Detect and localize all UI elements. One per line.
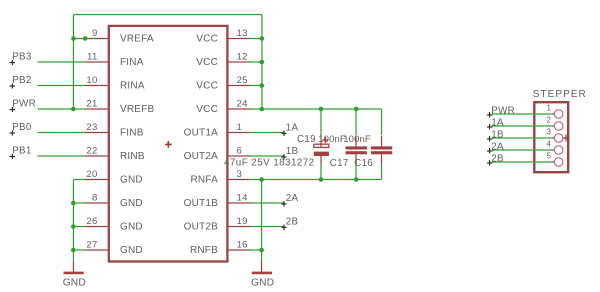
- svg-text:1A: 1A: [491, 117, 504, 128]
- svg-text:OUT1B: OUT1B: [184, 198, 218, 209]
- svg-text:VCC: VCC: [196, 81, 218, 92]
- svg-text:GND: GND: [251, 278, 274, 289]
- svg-text:5: 5: [547, 151, 552, 160]
- svg-text:21: 21: [86, 99, 97, 110]
- svg-text:4: 4: [547, 139, 552, 148]
- svg-text:VCC: VCC: [196, 34, 218, 45]
- svg-text:1: 1: [237, 122, 243, 133]
- svg-text:27: 27: [86, 240, 97, 251]
- svg-text:1B: 1B: [491, 129, 504, 140]
- svg-text:2B: 2B: [491, 153, 504, 164]
- svg-text:FINA: FINA: [120, 57, 144, 68]
- svg-text:RNFB: RNFB: [190, 245, 218, 256]
- svg-text:47uF 25V 1831272: 47uF 25V 1831272: [224, 157, 315, 168]
- svg-text:VREFA: VREFA: [120, 34, 154, 45]
- svg-text:PWR: PWR: [12, 99, 36, 110]
- svg-text:23: 23: [86, 122, 97, 133]
- svg-text:FINB: FINB: [120, 128, 144, 139]
- svg-text:PWR: PWR: [491, 105, 515, 116]
- svg-text:GND: GND: [63, 278, 86, 289]
- svg-text:26: 26: [86, 216, 97, 227]
- svg-text:2: 2: [547, 115, 552, 124]
- svg-text:9: 9: [92, 28, 98, 39]
- svg-text:100nF: 100nF: [343, 134, 371, 145]
- svg-text:2A: 2A: [286, 193, 299, 204]
- svg-text:2B: 2B: [286, 216, 299, 227]
- svg-text:1A: 1A: [286, 122, 299, 133]
- svg-text:RINA: RINA: [120, 81, 145, 92]
- svg-text:13: 13: [237, 28, 248, 39]
- svg-text:OUT2B: OUT2B: [184, 222, 218, 233]
- svg-text:GND: GND: [120, 245, 143, 256]
- svg-text:VREFB: VREFB: [120, 104, 154, 115]
- svg-text:1: 1: [547, 103, 552, 112]
- svg-text:C16: C16: [354, 158, 373, 169]
- svg-text:3: 3: [547, 127, 552, 136]
- svg-text:OUT1A: OUT1A: [184, 128, 218, 139]
- svg-text:STEPPER: STEPPER: [533, 89, 587, 100]
- svg-text:16: 16: [237, 240, 248, 251]
- svg-text:25: 25: [237, 75, 248, 86]
- svg-text:C17: C17: [330, 158, 349, 169]
- svg-text:8: 8: [92, 193, 98, 204]
- svg-text:12: 12: [237, 52, 248, 63]
- svg-text:22: 22: [86, 146, 97, 157]
- svg-text:GND: GND: [120, 175, 143, 186]
- svg-text:2A: 2A: [491, 141, 504, 152]
- svg-text:PB3: PB3: [12, 52, 32, 63]
- svg-text:C19: C19: [297, 134, 316, 145]
- svg-text:11: 11: [87, 52, 98, 63]
- svg-text:VCC: VCC: [196, 104, 218, 115]
- svg-text:GND: GND: [120, 198, 143, 209]
- svg-text:PB1: PB1: [12, 146, 31, 157]
- svg-text:GND: GND: [120, 222, 143, 233]
- svg-text:VCC: VCC: [196, 57, 218, 68]
- svg-text:PB0: PB0: [12, 122, 32, 133]
- svg-text:14: 14: [237, 193, 249, 204]
- svg-text:3: 3: [237, 169, 243, 180]
- svg-text:20: 20: [86, 169, 97, 180]
- svg-text:19: 19: [237, 216, 248, 227]
- svg-text:6: 6: [237, 146, 243, 157]
- svg-text:10: 10: [86, 75, 97, 86]
- svg-text:PB2: PB2: [12, 75, 31, 86]
- svg-text:RNFA: RNFA: [191, 175, 219, 186]
- svg-text:RINB: RINB: [120, 151, 145, 162]
- svg-text:1B: 1B: [286, 146, 299, 157]
- svg-text:24: 24: [237, 99, 249, 110]
- svg-text:OUT2A: OUT2A: [184, 151, 218, 162]
